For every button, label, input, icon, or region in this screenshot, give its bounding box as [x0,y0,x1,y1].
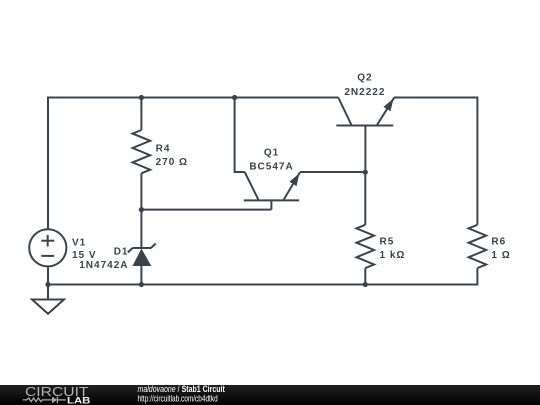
wire node to D1 cathode [140,210,142,248]
wire top rail [48,97,338,99]
svg-text:R4: R4 [156,144,171,155]
label R4 value [156,144,188,169]
node dot ground rail / V1 [45,282,50,287]
wire Q1 base to D1 node [141,209,271,211]
label Q2 [344,73,385,99]
logo resistor-diode line [23,397,66,403]
svg-text:V1: V1 [72,238,86,249]
label V1 value [72,238,97,261]
wire bottom rail [48,284,477,286]
node dot bottom rail / R5 [363,282,368,287]
node dot ground rail / D1 [139,282,144,287]
svg-text:D1: D1 [114,246,129,257]
transistor Q1 [244,172,300,210]
svg-text:Q2: Q2 [357,73,372,84]
svg-text:Q1: Q1 [264,148,279,159]
svg-text:BC547A: BC547A [249,161,293,172]
resistor R5 [357,172,375,285]
node dot top rail / R4 [139,95,144,100]
svg-text:2N2222: 2N2222 [344,87,385,98]
resistor R6 [469,225,487,286]
node dot top rail / Q1 collector [232,95,237,100]
svg-text:LAB: LAB [67,396,90,405]
ground [32,285,64,314]
svg-text:1 kΩ: 1 kΩ [380,250,406,261]
wire Q1 emitter to node [300,171,365,173]
zener diode D1 [128,244,156,285]
svg-text:1N4742A: 1N4742A [79,260,128,271]
resistor R4 [133,97,151,210]
wire right rail [476,97,478,225]
svg-text:http://circuitlab.com/cb4dtkd: http://circuitlab.com/cb4dtkd [138,393,218,403]
label R6 value [491,236,510,261]
node dot Q1 emitter / Q2 base / R5 [363,170,368,175]
footer title text [138,384,226,394]
svg-text:270 Ω: 270 Ω [156,157,188,168]
node dot R4 / D1 / Q1 base [139,207,144,212]
voltage source V1 [29,229,66,266]
svg-text:R5: R5 [380,236,395,247]
label R5 value [380,236,406,261]
wire Q2 emitter to right rail [394,97,477,99]
svg-text:R6: R6 [491,236,506,247]
label D1 value [79,246,128,271]
wire V1 to ground rail [47,267,49,285]
label Q1 [249,148,293,173]
svg-text:1 Ω: 1 Ω [491,250,510,261]
transistor Q2 [336,98,394,173]
wire left rail [47,97,49,230]
footer url text [138,393,218,403]
wire Q1 collector from top rail [235,98,245,173]
